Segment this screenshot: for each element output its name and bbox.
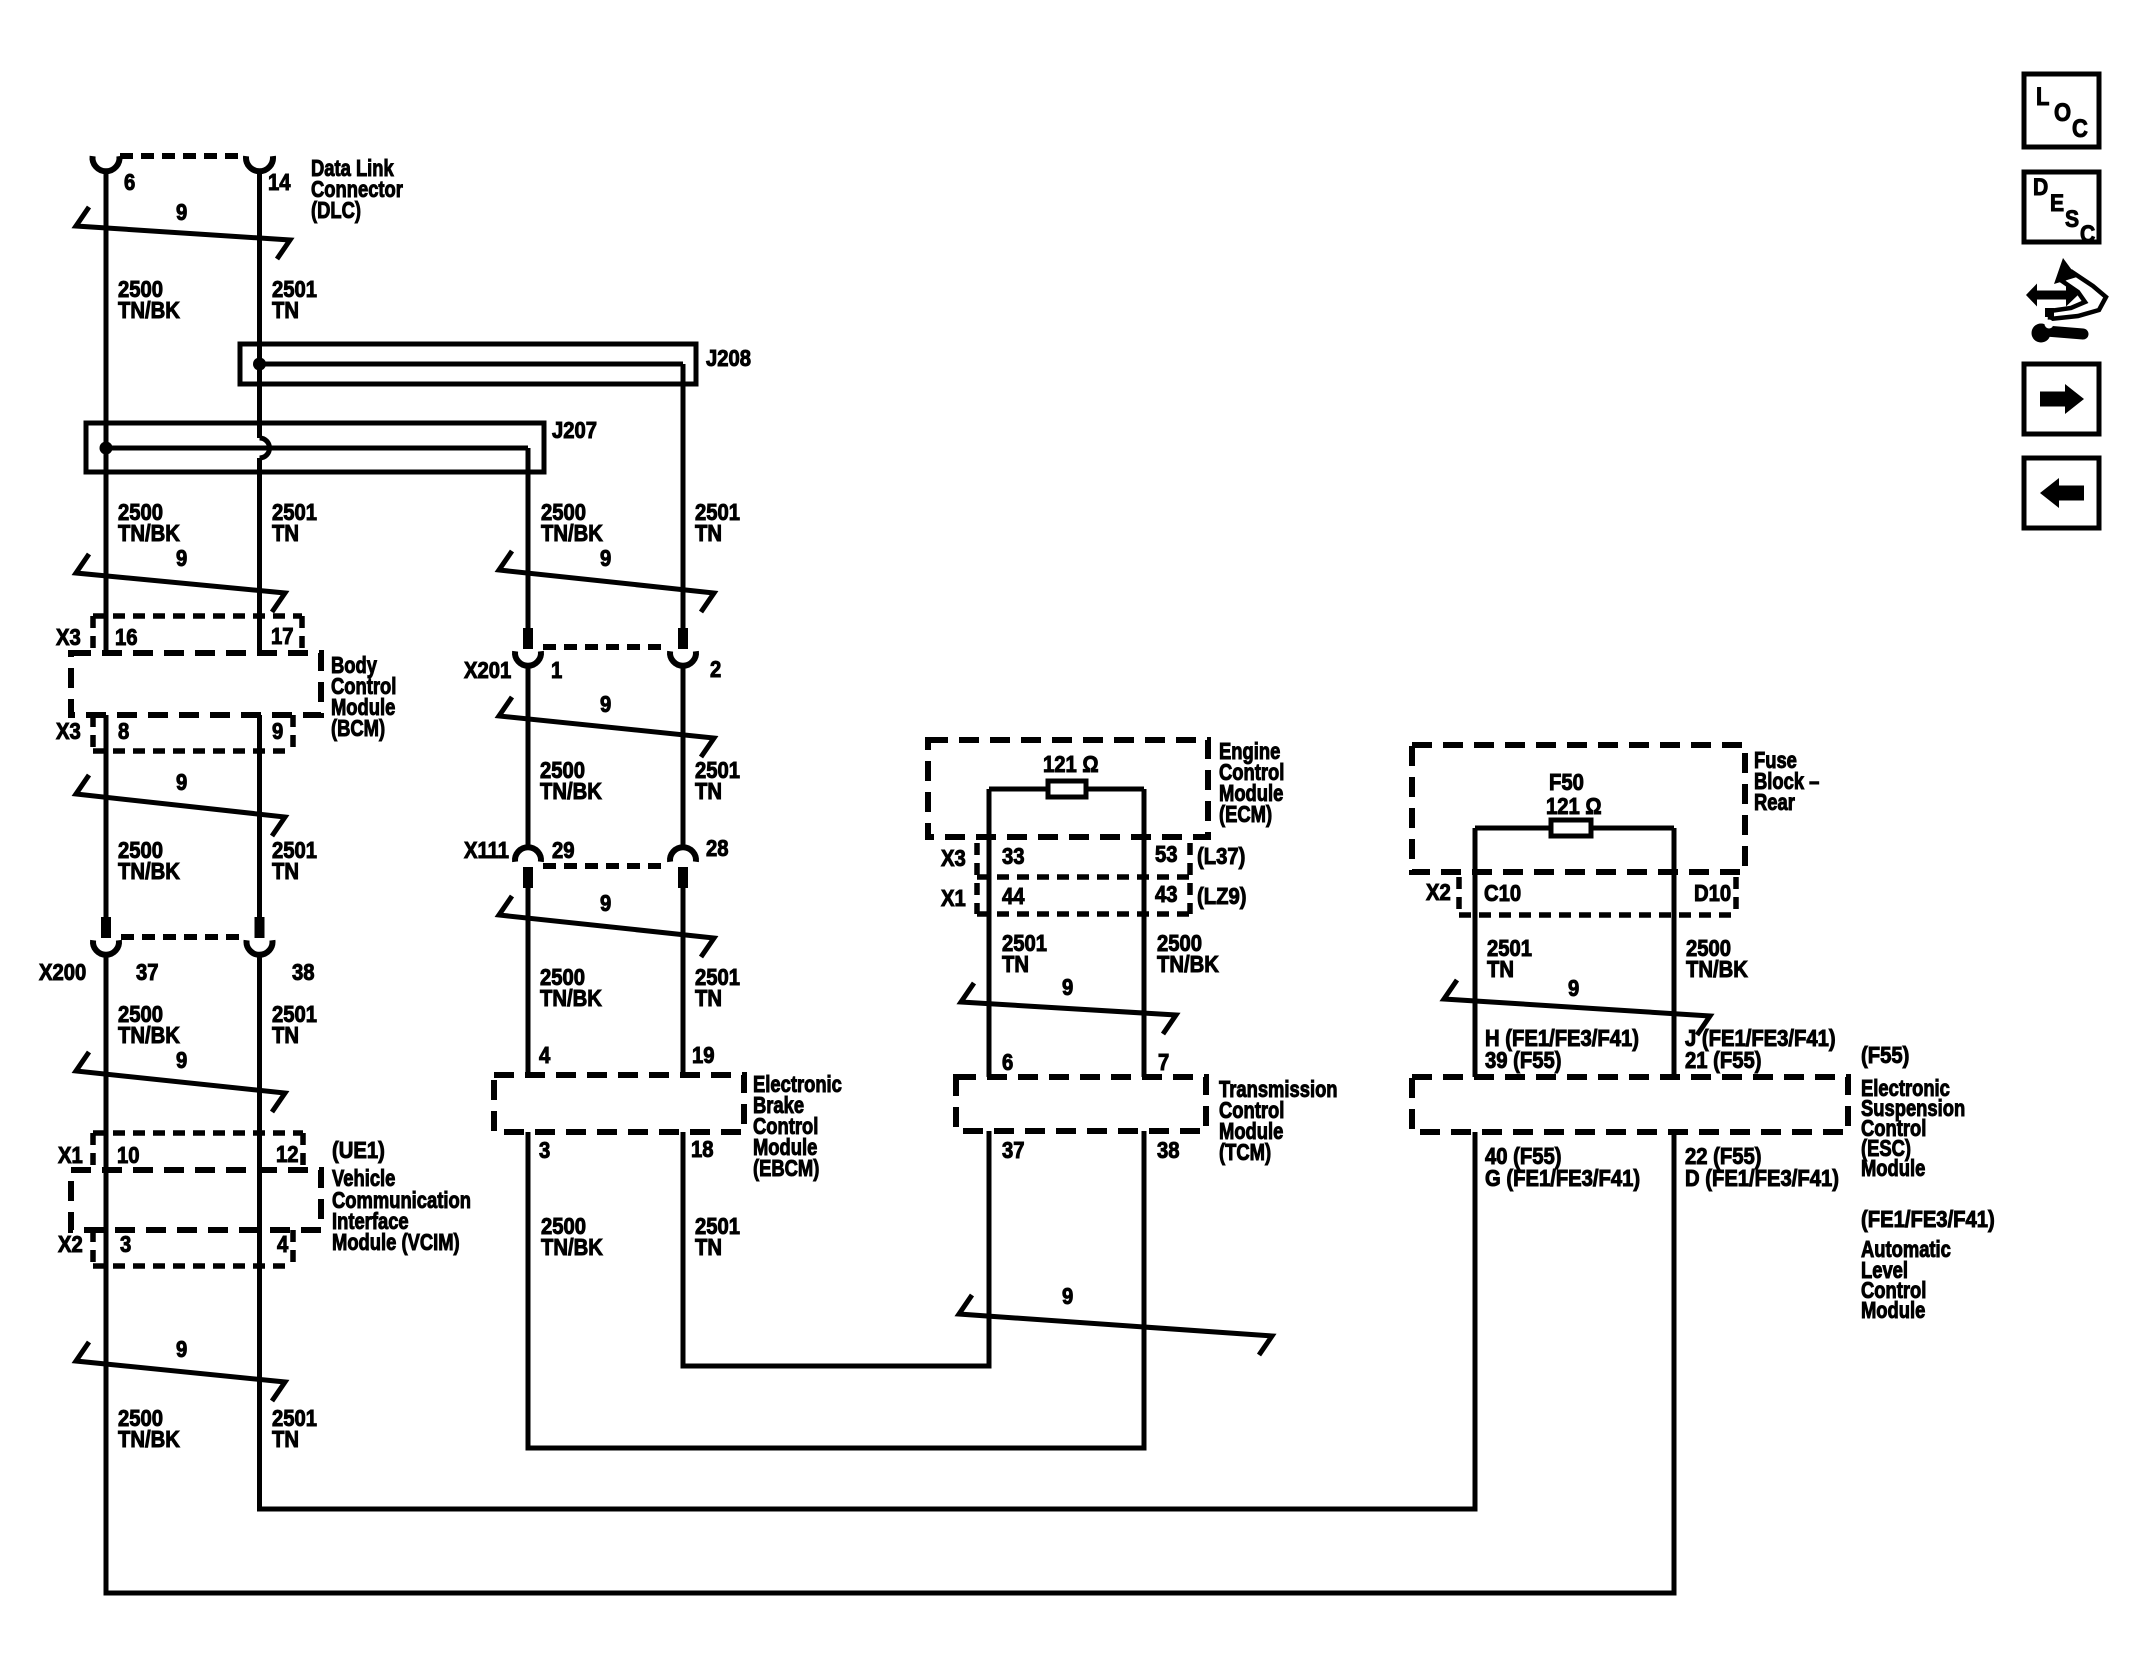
- svg-text:9: 9: [176, 769, 187, 796]
- svg-text:14: 14: [268, 169, 291, 196]
- svg-text:9: 9: [176, 545, 187, 572]
- svg-text:(L37): (L37): [1197, 843, 1245, 870]
- svg-text:TN: TN: [272, 297, 299, 324]
- svg-text:1: 1: [551, 657, 562, 684]
- svg-text:C10: C10: [1484, 880, 1521, 907]
- svg-text:2: 2: [710, 656, 721, 683]
- svg-text:X2: X2: [58, 1231, 83, 1258]
- svg-text:9: 9: [600, 545, 611, 572]
- svg-text:O: O: [2054, 99, 2071, 127]
- svg-text:38: 38: [1157, 1137, 1180, 1164]
- svg-text:Module (VCIM): Module (VCIM): [332, 1230, 460, 1255]
- svg-text:121 Ω: 121 Ω: [1546, 793, 1602, 820]
- svg-text:9: 9: [1062, 1283, 1073, 1310]
- svg-text:8: 8: [118, 718, 129, 745]
- svg-text:X200: X200: [39, 959, 86, 986]
- svg-text:19: 19: [692, 1042, 715, 1069]
- svg-text:L: L: [2036, 83, 2049, 111]
- svg-text:9: 9: [600, 691, 611, 718]
- svg-text:TN/BK: TN/BK: [118, 520, 180, 547]
- svg-text:D: D: [2033, 174, 2048, 201]
- svg-text:TN: TN: [272, 520, 299, 547]
- svg-text:6: 6: [124, 169, 135, 196]
- svg-text:E: E: [2050, 190, 2064, 217]
- svg-text:(TCM): (TCM): [1219, 1140, 1271, 1165]
- svg-text:9: 9: [600, 890, 611, 917]
- svg-text:16: 16: [115, 624, 138, 651]
- svg-text:21 (F55): 21 (F55): [1685, 1047, 1761, 1074]
- svg-text:10: 10: [117, 1142, 140, 1169]
- svg-text:(ECM): (ECM): [1219, 802, 1272, 827]
- svg-text:9: 9: [176, 1047, 187, 1074]
- svg-text:TN/BK: TN/BK: [118, 858, 180, 885]
- svg-text:D10: D10: [1694, 880, 1731, 907]
- svg-text:J207: J207: [552, 417, 597, 444]
- svg-text:39 (F55): 39 (F55): [1485, 1047, 1561, 1074]
- svg-text:53: 53: [1155, 841, 1178, 868]
- svg-text:J208: J208: [706, 345, 751, 372]
- svg-text:Module: Module: [1861, 1298, 1925, 1323]
- svg-text:17: 17: [271, 623, 294, 650]
- svg-text:TN/BK: TN/BK: [1157, 951, 1219, 978]
- svg-text:X1: X1: [941, 885, 966, 912]
- svg-text:X3: X3: [941, 845, 966, 872]
- svg-text:(FE1/FE3/F41): (FE1/FE3/F41): [1861, 1206, 1995, 1233]
- svg-text:(LZ9): (LZ9): [1197, 883, 1246, 910]
- svg-text:TN/BK: TN/BK: [1686, 956, 1748, 983]
- svg-text:(BCM): (BCM): [331, 716, 385, 741]
- svg-text:9: 9: [272, 718, 283, 745]
- svg-text:TN: TN: [695, 778, 722, 805]
- svg-text:18: 18: [691, 1136, 714, 1163]
- svg-text:4: 4: [277, 1231, 288, 1258]
- svg-text:TN/BK: TN/BK: [541, 1234, 603, 1261]
- svg-text:Module: Module: [1861, 1156, 1925, 1181]
- svg-text:C: C: [2072, 115, 2088, 143]
- svg-text:121 Ω: 121 Ω: [1043, 751, 1099, 778]
- svg-text:X1: X1: [58, 1142, 83, 1169]
- svg-text:(UE1): (UE1): [332, 1137, 385, 1164]
- svg-text:(EBCM): (EBCM): [753, 1156, 819, 1181]
- svg-text:37: 37: [1002, 1137, 1025, 1164]
- svg-text:33: 33: [1002, 843, 1025, 870]
- svg-text:TN/BK: TN/BK: [118, 297, 180, 324]
- svg-text:X201: X201: [464, 657, 511, 684]
- svg-text:F50: F50: [1549, 769, 1584, 796]
- svg-text:3: 3: [539, 1137, 550, 1164]
- svg-text:TN: TN: [272, 1022, 299, 1049]
- svg-text:29: 29: [552, 837, 575, 864]
- svg-text:X3: X3: [56, 718, 81, 745]
- svg-text:(F55): (F55): [1861, 1042, 1909, 1069]
- svg-text:TN: TN: [695, 520, 722, 547]
- svg-text:TN/BK: TN/BK: [541, 520, 603, 547]
- svg-text:9: 9: [176, 199, 187, 226]
- svg-text:TN/BK: TN/BK: [118, 1426, 180, 1453]
- svg-text:Rear: Rear: [1754, 790, 1795, 815]
- svg-text:37: 37: [136, 959, 159, 986]
- svg-text:TN: TN: [695, 1234, 722, 1261]
- svg-text:X111: X111: [464, 837, 509, 864]
- svg-text:TN: TN: [1487, 956, 1514, 983]
- svg-text:4: 4: [539, 1042, 550, 1069]
- svg-text:TN/BK: TN/BK: [118, 1022, 180, 1049]
- svg-text:S: S: [2065, 206, 2079, 233]
- svg-text:X3: X3: [56, 624, 81, 651]
- svg-text:3: 3: [120, 1231, 131, 1258]
- svg-text:C: C: [2080, 221, 2095, 248]
- svg-text:9: 9: [1062, 974, 1073, 1001]
- svg-text:TN: TN: [695, 985, 722, 1012]
- svg-text:6: 6: [1002, 1049, 1013, 1076]
- svg-text:D (FE1/FE3/F41): D (FE1/FE3/F41): [1685, 1165, 1839, 1192]
- svg-text:28: 28: [706, 835, 729, 862]
- svg-text:TN: TN: [1002, 951, 1029, 978]
- svg-text:X2: X2: [1426, 879, 1451, 906]
- svg-text:9: 9: [1568, 975, 1579, 1002]
- svg-text:G (FE1/FE3/F41): G (FE1/FE3/F41): [1485, 1165, 1640, 1192]
- svg-text:38: 38: [292, 959, 315, 986]
- svg-text:9: 9: [176, 1336, 187, 1363]
- svg-text:TN/BK: TN/BK: [540, 778, 602, 805]
- svg-text:7: 7: [1158, 1049, 1169, 1076]
- svg-text:43: 43: [1155, 881, 1178, 908]
- svg-text:TN: TN: [272, 1426, 299, 1453]
- svg-text:TN/BK: TN/BK: [540, 985, 602, 1012]
- svg-text:12: 12: [276, 1141, 299, 1168]
- svg-text:TN: TN: [272, 858, 299, 885]
- svg-text:44: 44: [1002, 883, 1025, 910]
- svg-text:(DLC): (DLC): [311, 198, 361, 223]
